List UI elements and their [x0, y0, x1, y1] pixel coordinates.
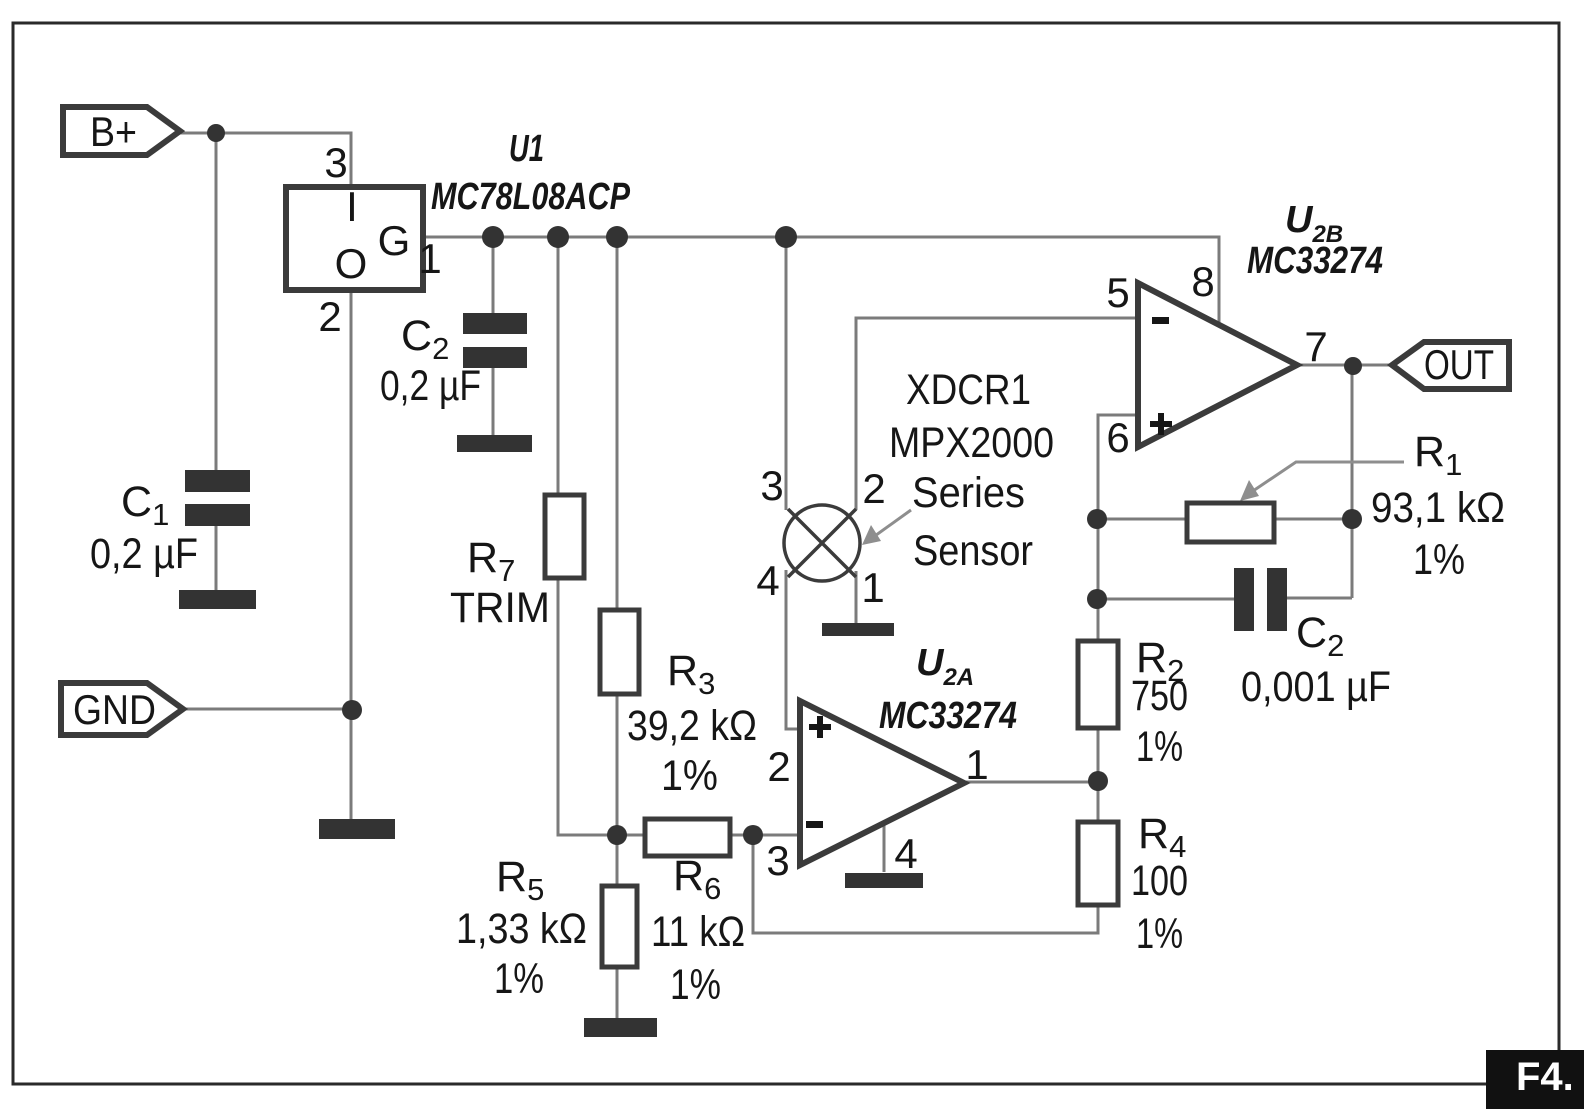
svg-text:XDCR1: XDCR1 — [906, 366, 1031, 414]
svg-text:7: 7 — [1304, 323, 1327, 370]
svg-text:1%: 1% — [1136, 723, 1183, 771]
svg-text:C2: C2 — [401, 312, 449, 366]
svg-text:O: O — [335, 240, 368, 287]
svg-text:1%: 1% — [661, 752, 718, 800]
svg-text:8: 8 — [1191, 258, 1214, 305]
svg-text:MC78L08ACP: MC78L08ACP — [431, 176, 631, 218]
svg-text:B+: B+ — [90, 108, 137, 155]
svg-text:39,2 kΩ: 39,2 kΩ — [627, 702, 757, 750]
svg-text:C1: C1 — [121, 478, 169, 532]
svg-text:Series: Series — [912, 469, 1025, 517]
svg-text:R7: R7 — [467, 534, 515, 588]
svg-text:R4: R4 — [1138, 810, 1186, 864]
svg-text:5: 5 — [1106, 269, 1129, 316]
svg-text:R3: R3 — [667, 647, 715, 701]
svg-text:TRIM: TRIM — [450, 584, 550, 632]
svg-text:750: 750 — [1131, 672, 1188, 720]
svg-text:11 kΩ: 11 kΩ — [651, 908, 745, 956]
svg-text:I: I — [346, 183, 358, 230]
svg-text:OUT: OUT — [1424, 341, 1494, 388]
svg-text:1,33 kΩ: 1,33 kΩ — [456, 905, 587, 953]
svg-text:100: 100 — [1131, 857, 1188, 905]
svg-text:GND: GND — [73, 686, 156, 733]
svg-text:1: 1 — [861, 564, 884, 611]
svg-text:3: 3 — [324, 139, 347, 186]
svg-text:1%: 1% — [670, 961, 721, 1009]
svg-text:R5: R5 — [496, 853, 544, 907]
svg-text:F4.: F4. — [1516, 1055, 1574, 1099]
svg-text:2: 2 — [318, 293, 341, 340]
svg-text:1%: 1% — [1136, 910, 1183, 958]
svg-text:MPX2000: MPX2000 — [889, 419, 1054, 467]
svg-text:4: 4 — [894, 830, 917, 877]
svg-text:MC33274: MC33274 — [879, 695, 1017, 737]
svg-text:U1: U1 — [509, 128, 544, 170]
svg-text:U2A: U2A — [916, 642, 974, 691]
svg-text:Sensor: Sensor — [913, 527, 1033, 575]
svg-text:0,001 µF: 0,001 µF — [1241, 663, 1391, 711]
svg-text:0,2 µF: 0,2 µF — [90, 530, 198, 578]
svg-text:3: 3 — [760, 462, 783, 509]
svg-text:3: 3 — [766, 837, 789, 884]
svg-text:2: 2 — [767, 743, 790, 790]
svg-text:2: 2 — [862, 465, 885, 512]
svg-text:0,2 µF: 0,2 µF — [380, 362, 481, 410]
svg-text:C2: C2 — [1296, 609, 1344, 663]
svg-text:93,1 kΩ: 93,1 kΩ — [1371, 484, 1505, 532]
svg-text:6: 6 — [1106, 414, 1129, 461]
svg-text:MC33274: MC33274 — [1247, 240, 1383, 282]
svg-text:4: 4 — [756, 557, 779, 604]
svg-text:1%: 1% — [494, 955, 544, 1003]
svg-text:1: 1 — [418, 235, 441, 282]
svg-text:R6: R6 — [673, 852, 721, 906]
svg-text:G: G — [378, 217, 411, 264]
svg-text:1%: 1% — [1413, 536, 1465, 584]
svg-text:1: 1 — [965, 741, 988, 788]
svg-text:R1: R1 — [1414, 428, 1462, 482]
